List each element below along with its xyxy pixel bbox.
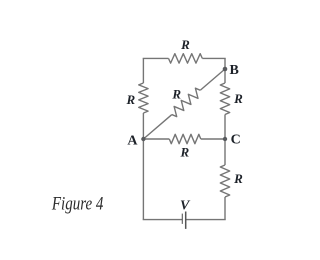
wire top-right segment <box>202 57 225 59</box>
wire diagonal lower lead (from node A) <box>143 115 171 139</box>
svg-text:R: R <box>171 86 181 101</box>
svg-text:R: R <box>233 171 243 186</box>
wire right bottom segment <box>224 197 226 220</box>
resistor R2 (left, R) <box>139 83 148 113</box>
wire left upper segment <box>142 58 144 83</box>
wire from middle resistor to node C <box>201 138 225 140</box>
svg-text:R: R <box>180 37 190 52</box>
resistor R5 (middle, R between A and C) <box>169 134 201 143</box>
resistor R1 (top, R) <box>169 54 203 63</box>
wire bottom-right segment <box>186 219 226 221</box>
wire from node A to middle resistor <box>143 138 169 140</box>
wire diagonal upper lead (to node B) <box>200 69 225 90</box>
svg-text:R: R <box>125 92 135 107</box>
node B junction dot <box>223 67 228 72</box>
battery V short plate (left) <box>181 214 183 224</box>
battery V long plate (right) <box>185 212 187 229</box>
node C junction dot <box>223 137 227 141</box>
wire right top segment (through node B) <box>224 58 226 83</box>
resistor R6 (right lower, R below C) <box>220 165 229 197</box>
wire top-left segment <box>143 57 169 59</box>
resistor R4 (right upper, R between B and C) <box>220 83 229 115</box>
wire bottom-left segment <box>143 219 183 221</box>
svg-text:A: A <box>127 133 138 148</box>
svg-text:C: C <box>231 133 241 148</box>
wire right middle segment (through node C) <box>224 115 226 166</box>
node A junction dot <box>141 137 145 141</box>
wire left lower segment (through node A) <box>142 113 144 220</box>
svg-text:R: R <box>233 91 243 106</box>
svg-text:Figure 4: Figure 4 <box>51 194 104 215</box>
svg-text:B: B <box>230 63 239 78</box>
resistor R3 (diagonal, R between A and B) <box>172 88 200 116</box>
svg-text:R: R <box>179 144 189 159</box>
